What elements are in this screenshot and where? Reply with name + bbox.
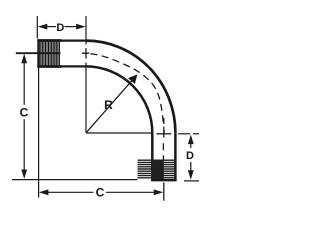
dimension D (right): top arrowhead <box>188 135 194 145</box>
top threaded end top border (thicker over rect) <box>37 39 61 42</box>
bottom face extension line (left part) <box>12 179 138 181</box>
top threaded end face edge <box>37 39 40 67</box>
dimension C (left): top arrowhead <box>21 54 27 64</box>
wire: pipe top inner straight edge <box>37 65 86 67</box>
bottom tangent cross dash <box>157 133 172 135</box>
radius construction vertical line / top D extension <box>85 16 87 133</box>
radius R arrowhead <box>128 74 137 84</box>
dimension C (left): bottom arrowhead <box>21 170 27 180</box>
radius construction horizontal line <box>86 132 152 134</box>
dimension C (bottom): right arrowhead <box>154 189 164 195</box>
svg-text:D: D <box>56 22 64 34</box>
svg-text:C: C <box>96 186 105 200</box>
bottom face extension line (right part, under right D arrow) <box>184 180 199 182</box>
inner bend arc <box>86 66 153 132</box>
svg-text:C: C <box>20 105 29 119</box>
top end centerline (dash-dot) <box>16 48 90 58</box>
dimension D (right): dimension line <box>190 142 192 173</box>
bottom end inner (left) edge <box>151 133 154 181</box>
centerline dashed arc <box>86 53 164 133</box>
dimension D (right): top extension line (dash-dot) <box>178 133 199 135</box>
svg-text:R: R <box>104 98 113 112</box>
top threads hatching <box>41 42 60 66</box>
wire: pipe top outer straight edge <box>37 39 86 41</box>
dimension D (top): right arrowhead <box>76 24 86 30</box>
svg-text:D: D <box>186 150 194 162</box>
bottom end outer (right) edge <box>174 133 177 181</box>
dimension C (left): dimension line <box>23 60 25 172</box>
dimension D (top): left arrowhead <box>38 24 48 30</box>
bottom end face edge <box>151 179 177 181</box>
dimension D (top): extension line left <box>36 16 38 39</box>
top threaded end bottom border (thicker over rect) <box>37 65 61 68</box>
dimension D (right): bottom arrowhead <box>188 170 194 180</box>
bottom end centerline (dash-dot) <box>162 118 164 201</box>
outer bend arc <box>86 41 176 133</box>
dimension C (bottom): dimension line <box>47 191 154 193</box>
bottom threads hatching <box>138 160 177 180</box>
radius R leader line <box>87 79 134 132</box>
dimension C (bottom): left extension line <box>38 68 40 198</box>
dimension D (top): dimension line <box>46 26 79 28</box>
dimension C (bottom): left arrowhead <box>39 189 49 195</box>
